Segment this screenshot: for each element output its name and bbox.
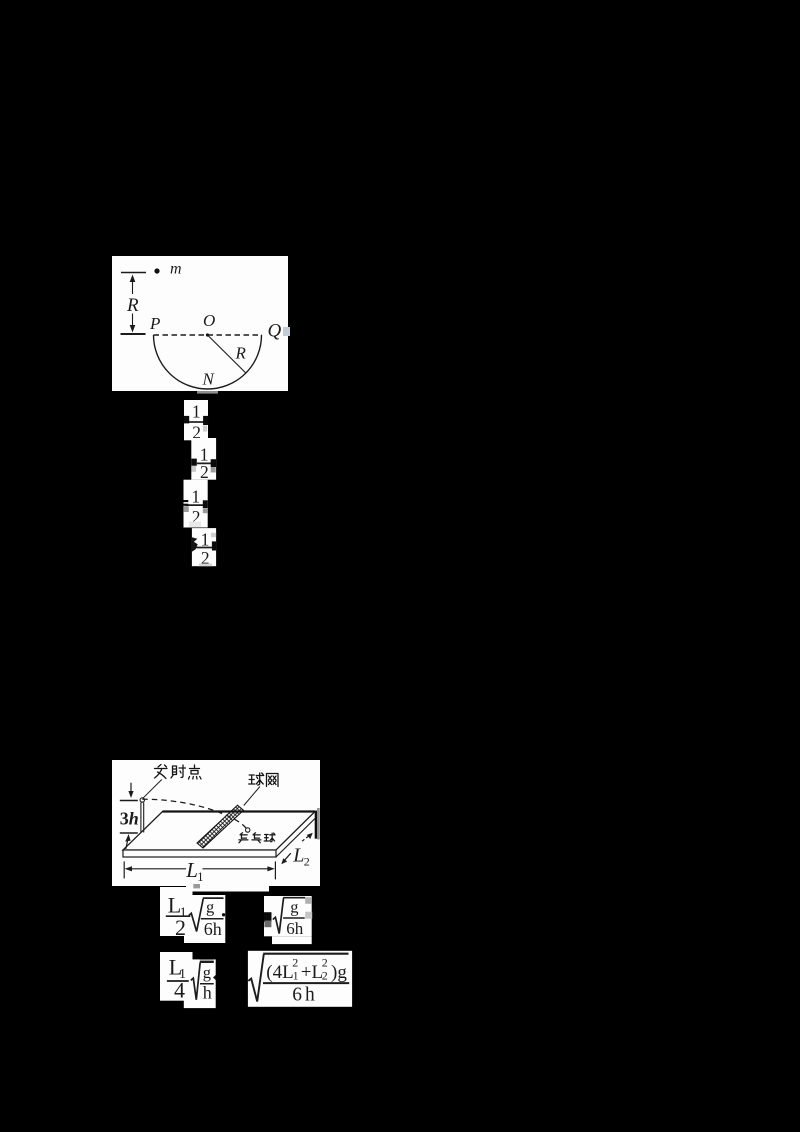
vertical double-headed arrow R [130,275,136,333]
gray speck below L1 label [193,884,200,888]
right wall black bar [315,811,317,839]
table slab front face [123,850,276,857]
svg-text:6h: 6h [292,984,318,1005]
svg-text:1: 1 [192,401,201,421]
ping-pong ball [246,828,250,832]
table far edge (thick) [163,810,316,812]
label 乒乓球 (CJK strokes) [239,833,275,843]
svg-text:N: N [202,370,216,389]
L1 dimension line with arrows [125,866,275,871]
formula 1 : (L1/2)*sqrt(g/6h) [160,887,225,943]
svg-text:g: g [290,898,298,917]
svg-text:)g: )g [331,962,347,983]
svg-text:4: 4 [174,978,185,1003]
lower reference tick [121,333,146,335]
svg-text:h: h [203,983,212,1003]
fraction 1/2 patch 1 [184,400,208,442]
leader line to launch point [143,780,162,799]
formula 4 : sqrt((4L1^2+L2^2)g/6h) [248,951,352,1007]
slab right bottom edge [276,819,315,858]
3h bottom tick [120,832,138,834]
dashed diameter P-Q [154,334,263,336]
svg-text:2: 2 [200,462,209,482]
svg-text:g: g [206,897,214,916]
label 球网 (CJK strokes) [249,773,278,787]
svg-text:1: 1 [201,529,210,549]
svg-text:6h: 6h [286,919,304,938]
svg-text:m: m [170,261,182,278]
gray artifact right of Q [283,327,290,336]
down arrow above 3h [128,783,133,798]
up arrow below bottom tick [125,834,130,849]
svg-text:R: R [235,344,247,363]
upper reference tick [121,272,146,274]
gray smudge below panel bottom near N [197,391,218,394]
L1 left extension line [123,861,125,878]
svg-text:L: L [185,858,198,882]
3h top tick [120,800,138,802]
svg-text:P: P [149,314,160,333]
svg-text:g: g [203,963,211,982]
right wall gray bar [317,808,320,839]
svg-text:3h: 3h [120,809,139,829]
svg-text:2: 2 [292,956,298,970]
svg-text:2: 2 [322,969,328,983]
svg-text:(4L: (4L [266,962,293,983]
label 发射点 (CJK strokes) [155,765,202,780]
formula 2 : sqrt(g/6h) [264,896,312,944]
launch point circle [140,798,144,802]
svg-text:2: 2 [175,915,186,940]
launch post [140,803,142,833]
fraction 1/2 patch 3 [184,480,208,528]
svg-text:L: L [292,845,304,867]
L2 arrow (down-left) [281,853,291,864]
svg-text:6h: 6h [204,919,222,939]
svg-text:O: O [203,311,215,330]
fraction 1/2 patch 2 [191,438,216,482]
svg-text:2: 2 [304,855,310,869]
svg-text:+L: +L [301,962,323,983]
svg-text:Q: Q [268,321,282,342]
L1 right extension line [274,861,276,879]
center dot O [206,333,209,336]
svg-text:2: 2 [322,956,328,970]
L2 dashed arrow (up-right) [302,833,313,841]
leader line to net [244,787,260,806]
panel 1 white background [112,256,290,394]
radius line O to arc [208,335,246,373]
svg-text:R: R [126,295,139,316]
formula 3 : (L1/4)*sqrt(g/h) [160,952,216,1008]
net (crosshatched band) [197,805,244,848]
white strip protruding below panel2 [186,886,269,892]
svg-text:1: 1 [191,486,200,506]
fraction 1/2 patch 4 [192,528,216,568]
ball m (black dot) [154,268,159,273]
dashed trajectory [142,799,247,830]
tabletop surface [123,812,315,851]
svg-text:1: 1 [197,870,203,884]
semicircular bowl arc [154,335,262,389]
svg-text:1: 1 [293,969,299,983]
